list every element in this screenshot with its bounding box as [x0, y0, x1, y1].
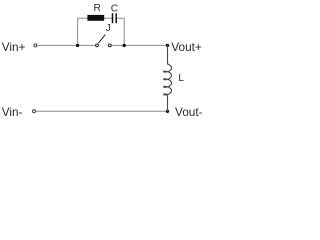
junction node B	[123, 44, 126, 47]
svg-text:Vout-: Vout-	[175, 105, 203, 119]
svg-text:Vin-: Vin-	[2, 105, 23, 119]
wire node A to switch	[78, 44, 96, 46]
capacitor C plate left	[112, 13, 114, 23]
junction node D	[166, 110, 169, 113]
svg-text:J: J	[106, 23, 111, 34]
wire Vin+ stub	[37, 44, 77, 46]
terminal Vin+	[34, 44, 37, 47]
junction node C	[166, 44, 169, 47]
wire node B to node C	[124, 44, 167, 46]
inductor L top lead	[167, 45, 169, 64]
svg-text:R: R	[94, 3, 101, 14]
wire resistor to capacitor	[104, 17, 112, 19]
terminal Vin-	[33, 110, 36, 113]
switch J left contact	[96, 44, 99, 47]
wire bottom Vin- to node D	[36, 110, 167, 112]
wire branch vertical left	[77, 18, 79, 45]
inductor L coil	[164, 64, 172, 95]
svg-text:L: L	[178, 73, 184, 84]
inductor L bottom lead	[167, 94, 169, 111]
wire switch to node B	[112, 44, 125, 46]
wire branch vertical right down to node B	[123, 18, 125, 46]
wire capacitor to branch right corner	[117, 17, 125, 19]
capacitor C plate right	[115, 13, 117, 23]
resistor R body	[87, 15, 104, 21]
wire branch top left to resistor	[77, 17, 88, 19]
switch J lever	[98, 35, 105, 44]
junction node A	[76, 44, 79, 47]
svg-text:Vout+: Vout+	[171, 40, 202, 54]
svg-text:C: C	[111, 3, 118, 14]
svg-text:Vin+: Vin+	[2, 40, 26, 54]
switch J right contact	[108, 44, 111, 47]
